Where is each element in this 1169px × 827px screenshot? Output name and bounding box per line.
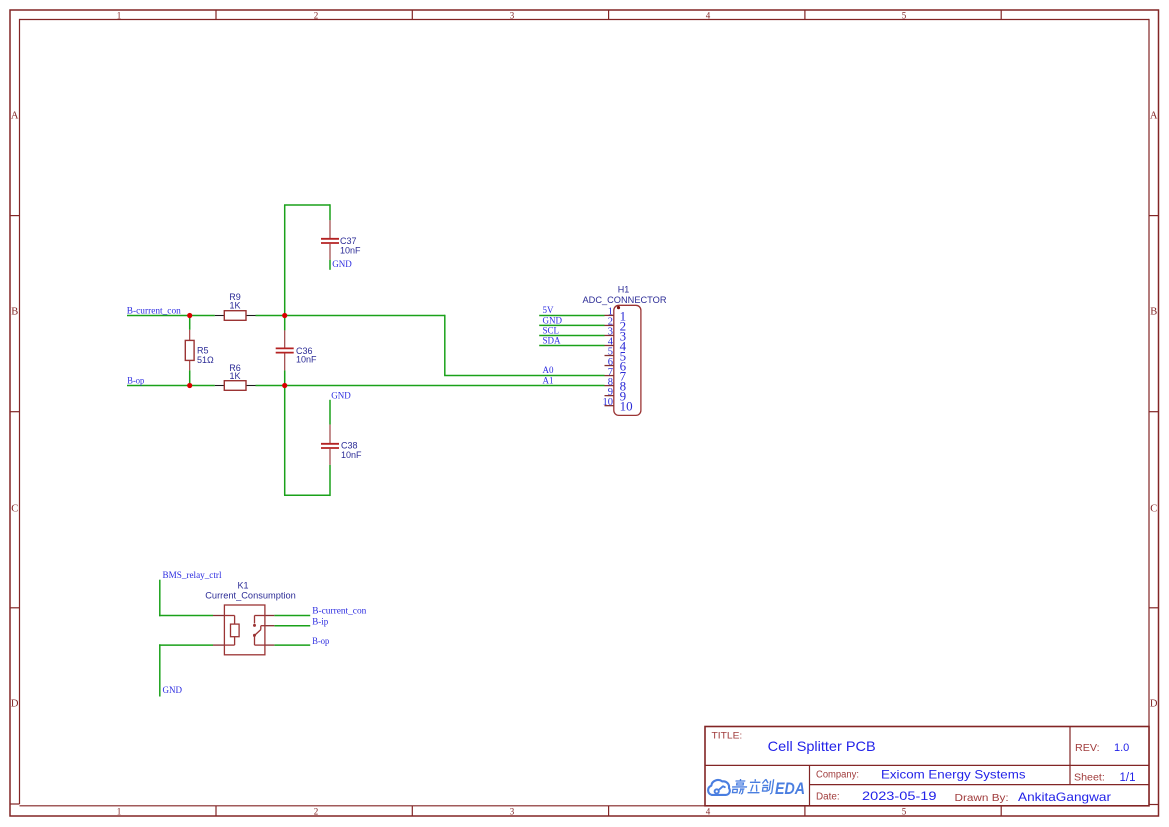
- svg-text:1/1: 1/1: [1120, 772, 1136, 784]
- svg-text:H1: H1: [618, 284, 630, 294]
- svg-text:2023-05-19: 2023-05-19: [862, 789, 937, 803]
- svg-text:5: 5: [902, 10, 907, 20]
- svg-text:5: 5: [902, 806, 907, 816]
- svg-text:B: B: [11, 307, 18, 318]
- svg-text:SDA: SDA: [543, 336, 562, 346]
- svg-text:B-current_con: B-current_con: [312, 605, 367, 615]
- svg-text:GND: GND: [332, 259, 352, 269]
- svg-text:2: 2: [314, 10, 319, 20]
- svg-text:4: 4: [706, 10, 711, 20]
- svg-text:Date:: Date:: [816, 792, 840, 803]
- svg-text:Current_Consumption: Current_Consumption: [205, 591, 296, 601]
- svg-text:10nF: 10nF: [296, 355, 317, 365]
- svg-text:Company:: Company:: [816, 770, 859, 781]
- svg-text:B-op: B-op: [312, 636, 329, 646]
- svg-text:C: C: [11, 504, 18, 515]
- svg-text:A: A: [11, 111, 19, 122]
- svg-text:ADC_CONNECTOR: ADC_CONNECTOR: [583, 295, 668, 305]
- svg-text:Cell Splitter PCB: Cell Splitter PCB: [768, 738, 876, 754]
- svg-text:C37: C37: [340, 236, 357, 246]
- svg-text:4: 4: [706, 806, 711, 816]
- svg-text:EDA: EDA: [775, 780, 805, 798]
- svg-text:5V: 5V: [543, 305, 555, 315]
- svg-text:3: 3: [510, 10, 515, 20]
- svg-text:10nF: 10nF: [340, 246, 361, 256]
- svg-text:2: 2: [314, 806, 319, 816]
- svg-text:GND: GND: [331, 390, 351, 400]
- svg-text:Drawn By:: Drawn By:: [955, 793, 1009, 804]
- svg-text:1K: 1K: [229, 371, 240, 381]
- svg-text:1K: 1K: [229, 301, 240, 311]
- svg-text:D: D: [11, 699, 19, 710]
- svg-text:D: D: [1150, 699, 1158, 710]
- svg-text:B-op: B-op: [127, 376, 144, 386]
- svg-text:AnkitaGangwar: AnkitaGangwar: [1018, 790, 1111, 804]
- svg-text:B-current_con: B-current_con: [127, 306, 182, 316]
- svg-text:A: A: [1150, 111, 1158, 122]
- svg-text:1.0: 1.0: [1114, 742, 1129, 754]
- svg-text:GND: GND: [543, 315, 563, 325]
- svg-text:B: B: [1150, 307, 1157, 318]
- svg-text:1: 1: [117, 10, 122, 20]
- svg-text:A1: A1: [543, 376, 554, 386]
- svg-text:K1: K1: [237, 581, 248, 591]
- svg-text:Sheet:: Sheet:: [1074, 772, 1105, 783]
- svg-text:1: 1: [117, 806, 122, 816]
- svg-text:3: 3: [510, 806, 515, 816]
- svg-text:C: C: [1150, 504, 1157, 515]
- svg-text:SCL: SCL: [543, 325, 560, 335]
- svg-text:B-ip: B-ip: [312, 616, 329, 626]
- svg-text:10nF: 10nF: [341, 450, 362, 460]
- svg-text:TITLE:: TITLE:: [712, 731, 743, 742]
- svg-text:51Ω: 51Ω: [197, 355, 214, 365]
- svg-text:REV:: REV:: [1075, 743, 1100, 754]
- svg-text:A0: A0: [543, 365, 554, 375]
- svg-text:BMS_relay_ctrl: BMS_relay_ctrl: [163, 570, 222, 580]
- svg-text:GND: GND: [163, 685, 183, 695]
- svg-text:Exicom Energy Systems: Exicom Energy Systems: [881, 767, 1026, 781]
- svg-text:10: 10: [620, 399, 633, 414]
- svg-text:10: 10: [603, 397, 614, 408]
